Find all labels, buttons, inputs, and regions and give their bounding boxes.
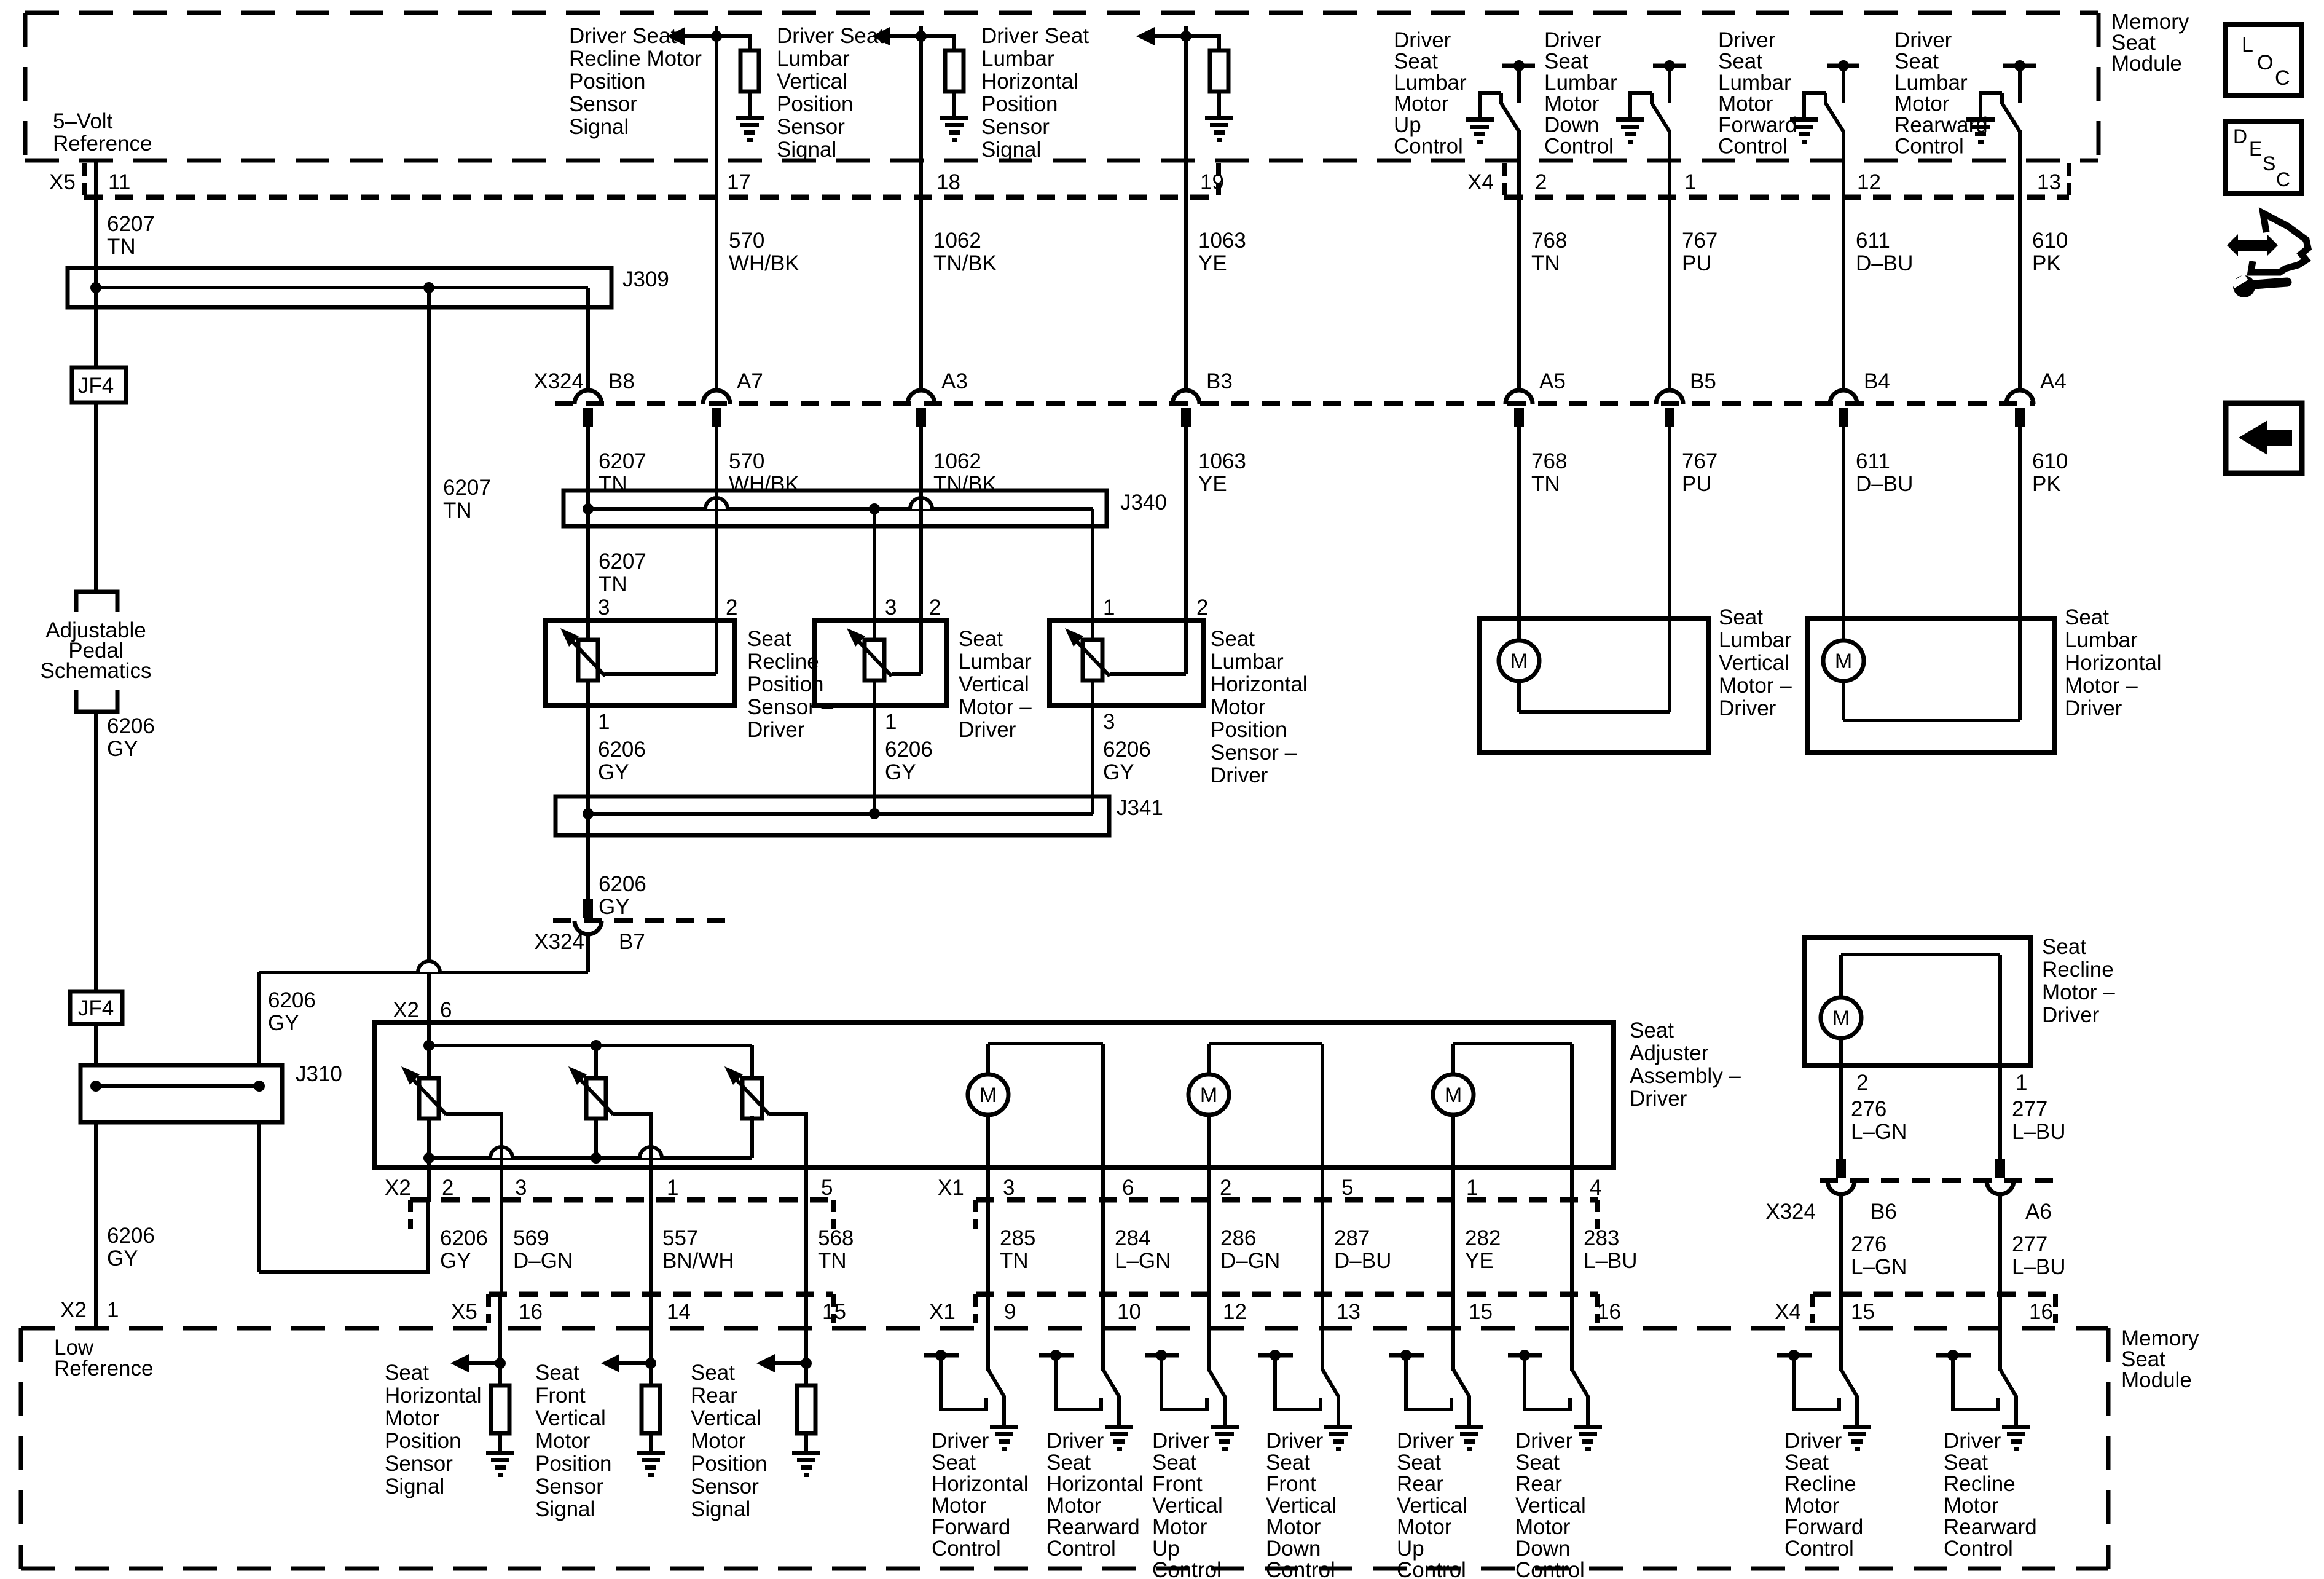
svg-text:Signal: Signal	[385, 1475, 444, 1498]
svg-text:D–GN: D–GN	[1220, 1249, 1280, 1273]
svg-text:Driver: Driver	[1544, 28, 1602, 52]
svg-text:557: 557	[662, 1226, 698, 1250]
wire 286 D–GN to bottom module	[1207, 1202, 1211, 1294]
svg-text:Horizontal: Horizontal	[385, 1384, 482, 1408]
label X324 (top row)	[533, 369, 584, 393]
wire label 287 D–BU	[1334, 1226, 1391, 1273]
connector X2 end tick (right)	[831, 1200, 836, 1229]
connector X324 terminal A4 (pin)	[2015, 408, 2025, 427]
svg-text:Signal: Signal	[691, 1497, 750, 1521]
svg-text:Driver: Driver	[1630, 1087, 1687, 1111]
svg-text:Lumbar: Lumbar	[2065, 628, 2138, 652]
terminal label B5	[1690, 369, 1716, 393]
junction dot on sensor signal wire pin 19	[1180, 31, 1191, 42]
svg-text:Reference: Reference	[53, 132, 152, 156]
svg-text:PK: PK	[2032, 472, 2061, 496]
svg-text:Sensor: Sensor	[981, 115, 1050, 139]
svg-text:611: 611	[1856, 449, 1890, 473]
wire label 570 WH/BK (below A7)	[729, 449, 799, 496]
wire label 6206 GY (above X2:1)	[107, 1224, 155, 1270]
connector row X4 (top), dashed	[1504, 195, 2069, 200]
icon: wrench with arrow	[2227, 213, 2308, 297]
svg-text:13: 13	[2037, 170, 2061, 194]
wire label 6206 GY (X2:2)	[440, 1226, 488, 1273]
pin 14 label (X5 bottom)	[667, 1300, 691, 1324]
motor Seat Lumbar Vertical (circle)	[1499, 640, 1539, 681]
wire sensor 1 low to J341	[586, 680, 590, 899]
svg-text:M: M	[1510, 650, 1528, 673]
wiper wire pot 2 to X2:1	[613, 1114, 651, 1202]
pin 3 label (sensor 3)	[1103, 710, 1115, 734]
wire hop on J340 bus over A3 wire	[910, 498, 932, 509]
wire sensor signal from module pin 17	[715, 26, 718, 391]
icon: back-arrow box	[2226, 403, 2302, 473]
svg-text:S: S	[2263, 152, 2275, 175]
svg-text:Schematics: Schematics	[41, 659, 152, 683]
svg-text:3: 3	[1003, 1176, 1015, 1200]
svg-text:16: 16	[519, 1300, 543, 1324]
svg-text:276: 276	[1851, 1232, 1886, 1256]
svg-text:Signal: Signal	[569, 115, 629, 139]
svg-text:569: 569	[513, 1226, 549, 1250]
svg-text:Seat: Seat	[1944, 1451, 1988, 1475]
svg-text:A3: A3	[941, 369, 968, 393]
wire resistor to ground (Seat Rear Vertical Motor Position Sensor Signal)	[804, 1433, 808, 1451]
svg-text:C: C	[2275, 66, 2290, 90]
svg-text:Motor: Motor	[1718, 92, 1773, 116]
connector row X5 (top), dashed	[84, 195, 1219, 200]
svg-text:Vertical: Vertical	[1152, 1494, 1223, 1518]
svg-text:Up: Up	[1397, 1537, 1424, 1561]
switch Driver Seat Horizontal Motor Rearward Control (bottom module)	[1039, 1294, 1133, 1451]
svg-text:Up: Up	[1152, 1537, 1180, 1561]
off-page connector to Adjustable Pedal Schematics (top bracket)	[76, 592, 117, 612]
svg-text:Forward: Forward	[932, 1515, 1010, 1539]
label X4 (bottom row)	[1775, 1300, 1801, 1324]
svg-text:Motor: Motor	[1211, 695, 1266, 719]
label: Driver Seat Rear Vertical Motor Down Control	[1515, 1429, 1586, 1579]
wire label 611 D-BU (below B4)	[1856, 449, 1913, 496]
connector X5 end tick (left)	[82, 163, 87, 197]
svg-text:2: 2	[726, 596, 737, 620]
wiper wire pot 3 to X2:5	[769, 1114, 806, 1202]
wiper wire inside sensor 3	[1110, 672, 1186, 676]
svg-text:M: M	[1200, 1084, 1217, 1107]
svg-text:Rearward: Rearward	[1944, 1515, 2037, 1539]
svg-text:Control: Control	[1046, 1537, 1116, 1561]
wire 6206 GY from JF4 to J310	[94, 1024, 98, 1065]
svg-text:1: 1	[598, 710, 610, 734]
pull-up resistor (Seat Horizontal Motor Position Sensor Signal)	[491, 1385, 509, 1433]
svg-text:Motor: Motor	[385, 1406, 440, 1430]
svg-text:Front: Front	[1266, 1472, 1316, 1496]
pin 3 label (X2)	[515, 1176, 527, 1200]
connector row X4 (bottom), dashed	[1813, 1292, 2055, 1297]
svg-text:M: M	[979, 1084, 997, 1107]
svg-text:Lumbar: Lumbar	[1211, 650, 1284, 674]
junction dot J340 (B8 wire)	[583, 503, 594, 514]
svg-text:Driver: Driver	[1394, 28, 1451, 52]
svg-text:Motor –: Motor –	[959, 695, 1032, 719]
bus wire inside J340	[588, 507, 1093, 511]
junction dot (Seat Front Vertical Motor Position Sensor Signal)	[645, 1358, 656, 1369]
pin 10 label (X1 bottom)	[1117, 1300, 1141, 1324]
svg-text:Vertical: Vertical	[1266, 1494, 1337, 1518]
wire label 276 L-GN (below B6)	[1851, 1232, 1907, 1279]
svg-text:Control: Control	[1944, 1537, 2013, 1561]
connector X324 dashed line (B6/A6)	[1820, 1178, 2054, 1183]
wire resistor to ground (Seat Front Vertical Motor Position Sensor Signal)	[649, 1433, 653, 1451]
wire label 6207 TN (below J340)	[599, 549, 646, 596]
svg-text:B3: B3	[1206, 369, 1233, 393]
wire label 611 D-BU	[1856, 229, 1913, 275]
svg-text:X1: X1	[938, 1176, 964, 1200]
svg-text:Motor: Motor	[1515, 1515, 1571, 1539]
label X324 (B7 row)	[534, 930, 584, 954]
connector X324 terminal A3 (pin)	[916, 408, 926, 427]
svg-text:Sensor: Sensor	[569, 92, 637, 116]
label J341	[1117, 796, 1163, 820]
pin 3 label (sensor 2)	[885, 596, 897, 620]
svg-text:Module: Module	[2121, 1368, 2192, 1392]
connector X2 end tick (left)	[408, 1200, 413, 1229]
pin 15 label (X4 bottom)	[1851, 1300, 1875, 1324]
wire label 767 PU (below B5)	[1682, 449, 1717, 496]
svg-text:JF4: JF4	[78, 374, 114, 398]
wire label 569 D–GN	[513, 1226, 573, 1273]
junction dot J309 left (to X5:11 wire)	[90, 282, 101, 293]
pin 2 label (sensor 2)	[929, 596, 941, 620]
label X1 (adjuster row)	[938, 1176, 964, 1200]
label: Driver Seat Recline Motor Forward Control	[1784, 1429, 1863, 1561]
pin 1 label (sensor 2)	[885, 710, 897, 734]
svg-text:Up: Up	[1394, 113, 1421, 137]
svg-text:Horizontal: Horizontal	[932, 1472, 1029, 1496]
pin 1 label (sensor 1)	[598, 710, 610, 734]
pin 15 label (X1 bottom)	[1469, 1300, 1493, 1324]
svg-text:284: 284	[1115, 1226, 1150, 1250]
wire from X4 pin 12 down to X324	[1842, 197, 1845, 391]
svg-text:5: 5	[821, 1176, 833, 1200]
sensor box: Seat Lumbar Horizontal Motor Position Sensor - Driver	[1050, 621, 1203, 706]
svg-text:Sensor: Sensor	[385, 1452, 453, 1476]
svg-text:768: 768	[1531, 229, 1567, 253]
pin 2 label (sensor 1)	[726, 596, 737, 620]
svg-text:PU: PU	[1682, 472, 1712, 496]
svg-text:17: 17	[727, 170, 751, 194]
svg-text:X324: X324	[1765, 1200, 1816, 1224]
label: Seat Recline Motor - Driver	[2042, 935, 2115, 1027]
component box: Seat Lumbar Vertical Motor - Driver	[1479, 618, 1708, 753]
label X2 (adjuster pin 6)	[393, 998, 419, 1022]
potentiometer (seat rear vertical position)	[724, 1066, 769, 1119]
connector X324 terminal A3 (arc)	[908, 390, 935, 404]
connector X5 end tick (right)	[1216, 163, 1221, 197]
wire hop over adjuster feed wire	[418, 961, 440, 972]
svg-text:Vertical: Vertical	[1397, 1494, 1467, 1518]
connector X324 terminal B5 (pin)	[1665, 408, 1674, 427]
junction dot J310 right	[254, 1081, 265, 1092]
svg-text:1: 1	[2016, 1071, 2027, 1095]
svg-text:J309: J309	[622, 267, 669, 291]
svg-text:X2: X2	[385, 1176, 411, 1200]
icon: DESC box	[2226, 121, 2302, 194]
pin 2 label (recline motor)	[1856, 1071, 1868, 1095]
svg-text:6206: 6206	[885, 738, 933, 762]
wire J340 to sensor 3 top	[1091, 509, 1094, 640]
svg-text:Driver: Driver	[2065, 696, 2122, 720]
wire 284 L–GN to bottom module	[1101, 1202, 1105, 1294]
svg-text:D–GN: D–GN	[513, 1249, 573, 1273]
switch Driver Seat Front Vertical Motor Up Control (bottom module)	[1145, 1294, 1239, 1451]
motor Seat Front Vertical Motor loop wiring	[1209, 1044, 1322, 1202]
pin 1 label (X2 bottom left)	[107, 1298, 119, 1322]
connector X4 end tick (right)	[2067, 163, 2071, 197]
terminal label B4	[1864, 369, 1890, 393]
svg-text:2: 2	[1856, 1071, 1868, 1095]
svg-text:1: 1	[1466, 1176, 1478, 1200]
label: Driver Seat Recline Motor Rearward Control	[1944, 1429, 2037, 1561]
wire into bottom module (Seat Front Vertical Motor Position Sensor Signal)	[649, 1294, 653, 1385]
svg-text:Motor: Motor	[932, 1494, 987, 1518]
wire sensor 3 low to J341	[1091, 680, 1094, 814]
wire 6206 GY horizontal from B7 to J310 riser	[259, 971, 588, 974]
svg-text:Vertical: Vertical	[777, 69, 847, 93]
svg-text:15: 15	[1851, 1300, 1875, 1324]
label X5 (bottom row)	[451, 1300, 477, 1324]
svg-text:6207: 6207	[599, 449, 646, 473]
wire label 768 TN (below A5)	[1531, 449, 1567, 496]
arrow into module at pin 17	[667, 27, 716, 45]
svg-text:Reference: Reference	[54, 1357, 153, 1380]
switch Driver Seat Lumbar Motor Rearward Control inside module	[1966, 60, 2036, 197]
ground inside module at pin 17	[736, 116, 764, 142]
wire label 282 YE	[1465, 1226, 1501, 1273]
svg-text:Driver: Driver	[1718, 28, 1776, 52]
label: Driver Seat Lumbar Motor Up Control	[1394, 28, 1467, 159]
svg-text:Seat: Seat	[747, 627, 791, 651]
svg-text:Driver: Driver	[1211, 763, 1268, 787]
svg-text:Driver: Driver	[1784, 1429, 1842, 1453]
wire pot 2 column	[594, 1045, 598, 1158]
wire 277 L-BU from A6 to X4:16	[1998, 1194, 2002, 1294]
svg-text:Horizontal: Horizontal	[1211, 672, 1308, 696]
pin 1 label (X2)	[667, 1176, 678, 1200]
connector X324 terminal A5 (arc)	[1505, 390, 1533, 404]
junction dot J310 left	[90, 1081, 101, 1092]
wire 6206 GY from J310 down to X2:2 corner	[257, 1122, 261, 1272]
pin 9 label (X1 bottom)	[1004, 1300, 1016, 1324]
junction block J341	[555, 797, 1109, 835]
svg-text:6206: 6206	[599, 872, 646, 896]
wire label 283 L–BU	[1584, 1226, 1638, 1273]
ground (Seat Rear Vertical Motor Position Sensor Signal)	[792, 1451, 820, 1477]
label X4 (top row)	[1467, 170, 1494, 194]
svg-text:X4: X4	[1775, 1300, 1801, 1324]
pin 1 label (sensor 3)	[1103, 596, 1115, 620]
svg-text:X324: X324	[533, 369, 584, 393]
svg-text:1: 1	[1684, 170, 1696, 194]
connector X4 bottom tick (left)	[1810, 1294, 1815, 1323]
svg-text:Seat: Seat	[1394, 50, 1438, 74]
connector X1 end tick (right)	[1595, 1200, 1600, 1229]
junction block J309	[68, 268, 611, 307]
svg-text:6206: 6206	[1103, 738, 1151, 762]
svg-text:Front: Front	[1152, 1472, 1203, 1496]
terminal label A4	[2040, 369, 2067, 393]
motor Seat Lumbar Vertical loop wiring	[1519, 427, 1670, 712]
svg-text:Seat: Seat	[535, 1361, 579, 1385]
junction dot adjuster low bus (pot 1)	[423, 1152, 434, 1164]
svg-text:Driver: Driver	[1397, 1429, 1454, 1453]
svg-text:Driver: Driver	[1152, 1429, 1210, 1453]
wire label 6207 TN (adjuster feed)	[443, 476, 491, 522]
pin 2 label (X1)	[1220, 1176, 1231, 1200]
svg-text:Control: Control	[1718, 135, 1788, 159]
wire riser from J310 to B7 line	[257, 972, 261, 1065]
svg-text:GY: GY	[598, 760, 629, 784]
connector X324 dashed line (top row)	[555, 401, 2035, 406]
svg-text:276: 276	[1851, 1097, 1886, 1121]
svg-text:11: 11	[108, 170, 130, 194]
connector X324 dashed line (B7)	[553, 918, 731, 923]
icon: LOC box	[2226, 25, 2302, 96]
pin 16 label (X1 bottom)	[1597, 1300, 1621, 1324]
svg-text:Control: Control	[1544, 135, 1614, 159]
module box: Memory Seat Module (top), dashed outline	[25, 13, 2098, 160]
pin 1 label (recline motor)	[2016, 1071, 2027, 1095]
wire A3 into sensor 2 wiper	[919, 427, 923, 674]
svg-text:Seat: Seat	[1397, 1451, 1441, 1475]
connector X324 terminal B4 (arc)	[1830, 390, 1857, 404]
label X2 (bottom left)	[60, 1298, 87, 1322]
sensor box: Seat Lumbar Vertical Motor - Driver	[815, 621, 946, 706]
svg-text:5: 5	[1341, 1176, 1353, 1200]
svg-text:Driver: Driver	[932, 1429, 989, 1453]
label: Seat Lumbar Horizontal Motor Position Sensor - Driver	[1211, 627, 1308, 787]
junction dot on sensor signal wire pin 18	[916, 31, 927, 42]
connector X324 terminal B7 (arc)	[575, 921, 602, 934]
svg-text:6207: 6207	[443, 476, 491, 500]
svg-text:1: 1	[667, 1176, 678, 1200]
svg-text:12: 12	[1857, 170, 1881, 194]
svg-text:BN/WH: BN/WH	[662, 1249, 734, 1273]
svg-text:18: 18	[936, 170, 960, 194]
svg-text:Driver: Driver	[959, 718, 1016, 742]
wire label 568 TN	[818, 1226, 854, 1273]
pull-up resistor (Seat Front Vertical Motor Position Sensor Signal)	[642, 1385, 660, 1433]
svg-text:568: 568	[818, 1226, 854, 1250]
node Driver Seat Lumbar Horizontal Position Sensor Signal (label)	[981, 24, 1089, 162]
label: Memory Seat Module (top right)	[2111, 10, 2189, 76]
connector X324 terminal A6 (arc)	[1987, 1181, 2014, 1194]
svg-text:2: 2	[929, 596, 941, 620]
svg-text:X2: X2	[393, 998, 419, 1022]
svg-text:Lumbar: Lumbar	[1394, 71, 1467, 95]
svg-text:610: 610	[2032, 229, 2068, 253]
motor Seat Rear Vertical Motor (circle)	[1433, 1074, 1474, 1115]
motor Seat Rear Vertical Motor loop wiring	[1453, 1044, 1572, 1202]
wire A7 into sensor 1 wiper	[715, 427, 718, 674]
connector X324 terminal B3 (pin)	[1181, 408, 1191, 427]
svg-text:D–BU: D–BU	[1334, 1249, 1391, 1273]
svg-text:768: 768	[1531, 449, 1567, 473]
wire label 1063 YE	[1198, 229, 1246, 275]
svg-text:Motor –: Motor –	[1719, 674, 1792, 698]
svg-text:Control: Control	[1394, 135, 1463, 159]
svg-text:TN: TN	[1531, 251, 1560, 275]
wire label 6207 TN (below B8)	[599, 449, 646, 496]
svg-text:277: 277	[2012, 1097, 2047, 1121]
pin 18 label (X5)	[936, 170, 960, 194]
svg-text:3: 3	[515, 1176, 527, 1200]
ground (Seat Horizontal Motor Position Sensor Signal)	[486, 1451, 514, 1477]
svg-text:3: 3	[1103, 710, 1115, 734]
svg-text:Down: Down	[1544, 113, 1599, 137]
svg-text:L: L	[2242, 33, 2253, 57]
svg-text:Seat: Seat	[1211, 627, 1255, 651]
svg-text:6206: 6206	[268, 988, 316, 1012]
svg-text:L–BU: L–BU	[1584, 1249, 1638, 1273]
svg-text:Position: Position	[1211, 718, 1287, 742]
connector row X1 (adjuster), dashed	[976, 1197, 1598, 1203]
svg-text:Lumbar: Lumbar	[1718, 71, 1791, 95]
svg-text:283: 283	[1584, 1226, 1619, 1250]
svg-text:Vertical: Vertical	[959, 672, 1029, 696]
svg-text:Seat: Seat	[1266, 1451, 1310, 1475]
svg-text:X324: X324	[534, 930, 584, 954]
svg-text:Signal: Signal	[535, 1497, 595, 1521]
svg-text:5–Volt: 5–Volt	[53, 109, 113, 133]
pin 5 label (X1)	[1341, 1176, 1353, 1200]
svg-text:12: 12	[1223, 1300, 1247, 1324]
bus wire inside J341	[588, 812, 1093, 816]
switch Driver Seat Lumbar Motor Down Control inside module	[1616, 60, 1686, 197]
svg-text:Seat: Seat	[1718, 50, 1762, 74]
ground inside module at pin 18	[940, 116, 968, 142]
arrow into module (Seat Rear Vertical Motor Position Sensor Signal)	[756, 1354, 806, 1372]
svg-text:1: 1	[1103, 596, 1115, 620]
svg-text:570: 570	[729, 229, 764, 253]
svg-text:D–BU: D–BU	[1856, 251, 1913, 275]
label J309	[622, 267, 669, 291]
wire J340 to sensor 1 top	[586, 509, 590, 640]
svg-text:GY: GY	[885, 760, 916, 784]
connector X324 terminal B4 (pin)	[1839, 408, 1848, 427]
arrow into module at pin 18	[871, 27, 921, 45]
svg-text:Vertical: Vertical	[691, 1406, 761, 1430]
wiper wire pot 1 to X2:3	[446, 1114, 501, 1202]
svg-text:GY: GY	[107, 737, 138, 761]
connector X324 terminal A4 (arc)	[2006, 390, 2033, 404]
terminal label B7	[619, 930, 645, 954]
svg-text:L–GN: L–GN	[1115, 1249, 1171, 1273]
svg-text:Lumbar: Lumbar	[1719, 628, 1792, 652]
svg-text:Lumbar: Lumbar	[1544, 71, 1617, 95]
potentiometer (seat front vertical position)	[568, 1066, 613, 1119]
svg-text:19: 19	[1200, 170, 1224, 194]
svg-text:A5: A5	[1539, 369, 1566, 393]
connector row X5 (bottom), dashed	[489, 1292, 833, 1297]
svg-text:Driver: Driver	[1894, 28, 1952, 52]
svg-text:GY: GY	[107, 1246, 138, 1270]
svg-text:16: 16	[1597, 1300, 1621, 1324]
svg-text:282: 282	[1465, 1226, 1501, 1250]
svg-text:1: 1	[885, 710, 897, 734]
svg-text:GY: GY	[1103, 760, 1134, 784]
svg-text:TN: TN	[443, 498, 472, 522]
wire label 767 PU	[1682, 229, 1717, 275]
